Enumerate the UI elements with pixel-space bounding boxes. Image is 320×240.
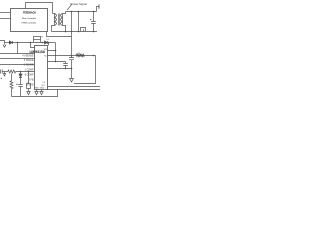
text labels [22, 2, 87, 90]
wire: drop from power bus [78, 12, 80, 32]
svg-text:PWM Controller: PWM Controller [22, 22, 37, 25]
wire: drop to IC pin 1 [31, 43, 35, 48]
wire: pin rail FB [48, 61, 66, 63]
node [20, 71, 22, 73]
wire [72, 55, 96, 57]
capacitor C1 at edge [1, 70, 3, 74]
wire [16, 71, 35, 73]
svg-text:D2: D2 [47, 39, 49, 41]
svg-text:R4: R4 [41, 36, 43, 38]
transformer T1 core [59, 14, 60, 26]
wire [13, 42, 45, 44]
svg-text:R3: R3 [78, 53, 80, 55]
node [55, 50, 57, 52]
polarity mark [90, 19, 92, 21]
capacitor C6 [69, 56, 74, 60]
node [71, 55, 73, 57]
wire: SW pin loop [48, 51, 56, 62]
wire [48, 42, 56, 44]
wire to ground bus [20, 87, 22, 97]
wire: primary top lead [53, 13, 55, 15]
svg-text:6 GND: 6 GND [26, 85, 33, 87]
ground [70, 79, 74, 82]
node: power bus junctions [65, 11, 95, 33]
wire: pin rail COMP [48, 68, 72, 70]
wire: node column VCC [71, 12, 73, 79]
wire: feedback rail [2, 71, 8, 73]
svg-text:2 SENSE: 2 SENSE [24, 65, 34, 67]
resistor R3 [76, 54, 85, 56]
svg-text:1 COMP: 1 COMP [25, 70, 34, 72]
wire: bottom rail 2 [48, 89, 101, 91]
terminal bar [98, 5, 100, 9]
node [65, 68, 67, 70]
wire: secondary top lead to power bus [63, 12, 66, 14]
mid bus [52, 31, 98, 33]
ground symbol IC pin [35, 90, 38, 95]
svg-text:4 VSENSE: 4 VSENSE [22, 56, 34, 58]
wire: secondary bottom lead to mid bus [63, 26, 66, 32]
diode D3 [19, 74, 22, 78]
wire: primary bottom lead to mid bus [52, 26, 55, 32]
wire: pin rail 1 [0, 53, 35, 55]
ground bus [12, 90, 58, 97]
wire: drop to SW node [48, 43, 50, 46]
svg-text:SW: SW [44, 49, 47, 51]
probe arrow [3, 72, 5, 77]
svg-text:Y1: Y1 [27, 82, 29, 84]
wire: bottom rail 1 [48, 86, 101, 88]
wire: input left with probe arrow [0, 41, 5, 45]
svg-text:FEEDBACK: FEEDBACK [23, 12, 36, 15]
node [71, 68, 73, 70]
node [93, 55, 95, 57]
svg-text:3 TRACE: 3 TRACE [24, 59, 34, 62]
controller block U2 (Main/PWM Controller) [11, 9, 48, 32]
wire: main input rail [5, 42, 10, 44]
arrow head [3, 45, 6, 48]
node dots on input rail [17, 42, 50, 44]
IC U1 LM26115A [35, 46, 48, 90]
wire: pin rail 3 [0, 64, 35, 66]
wire: drop to pin rail [17, 43, 19, 54]
wire: output loop [74, 56, 96, 84]
svg-text:GND: GND [40, 88, 45, 90]
switch SW1 blade [67, 4, 72, 10]
transformer T1 secondary winding [61, 14, 63, 26]
resistor R1 [8, 70, 16, 73]
resistor R2 (vertical) [10, 74, 13, 97]
svg-text:GND: GND [34, 88, 39, 90]
wire: pin rail VSW [48, 55, 72, 57]
wire: left stub to controller pin 2 [0, 18, 11, 20]
svg-text:Power Signal: Power Signal [71, 2, 88, 6]
node [55, 61, 57, 63]
polarity mark C2 [16, 83, 18, 85]
wire: bus exit top-right [97, 7, 100, 12]
wire: controller top to transformer primary [26, 3, 53, 14]
diode D1 [9, 41, 12, 44]
capacitor C3 [63, 62, 68, 69]
wire [20, 72, 22, 85]
svg-text:8 COMP: 8 COMP [25, 75, 34, 77]
wire: left stub to controller pin [0, 12, 11, 14]
fuse F1 [81, 28, 86, 32]
resistor R4 (bridge) [34, 40, 41, 43]
polarity mark C1 [1, 78, 3, 80]
power input bus [66, 11, 97, 13]
svg-text:Main Controller: Main Controller [22, 17, 36, 20]
wire: pin rail 2 [0, 58, 35, 60]
crystal Y1 [27, 84, 31, 89]
ground symbol IC pin 2 [40, 90, 43, 95]
capacitor C5 [91, 12, 96, 32]
capacitor C2 [18, 85, 22, 87]
wire: feedback tap from controller to node column [47, 32, 72, 37]
ground symbol Y1 [27, 89, 30, 95]
transformer T1 primary winding [55, 14, 57, 26]
svg-text:5 FB: 5 FB [29, 80, 34, 82]
diode D2 [45, 41, 48, 44]
wire: drop from input rail [55, 43, 57, 51]
